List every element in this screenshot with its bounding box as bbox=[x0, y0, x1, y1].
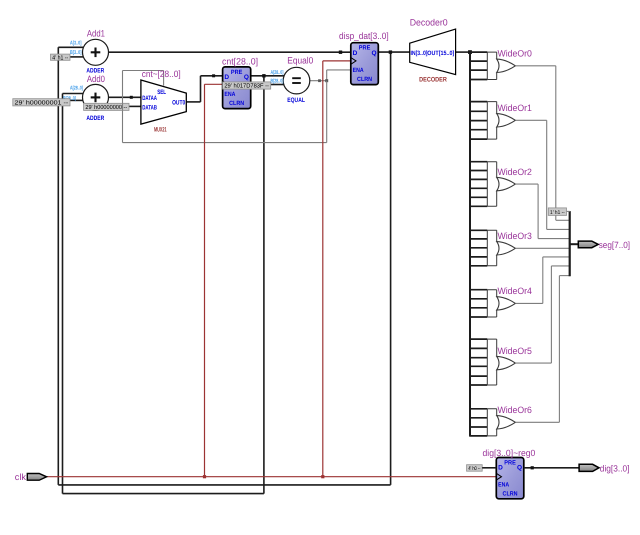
svg-text:29' h00000000 --: 29' h00000000 -- bbox=[85, 104, 127, 111]
or-gate WideOr3 body bbox=[497, 242, 516, 255]
or-gate WideOr5 body bbox=[497, 356, 516, 369]
svg-text:B[28..0]: B[28..0] bbox=[271, 79, 284, 85]
svg-text:dig[3..0]: dig[3..0] bbox=[600, 464, 630, 474]
wire seg output bbox=[570, 243, 579, 245]
or-gate WideOr2 input bar bbox=[487, 162, 496, 207]
svg-text:OUT0: OUT0 bbox=[172, 100, 185, 107]
or-gate WideOr0 input bar bbox=[487, 52, 496, 79]
wire disp_dat Q to Decoder0 input bbox=[378, 51, 409, 53]
or-gate WideOr5 input stubs bbox=[469, 339, 487, 385]
svg-text:WideOr5: WideOr5 bbox=[498, 346, 532, 356]
svg-text:A[28..0]: A[28..0] bbox=[70, 86, 83, 92]
constant 1'h1 for seg bbox=[548, 208, 566, 216]
svg-text:WideOr0: WideOr0 bbox=[498, 49, 532, 59]
svg-text:cnt[28..0]: cnt[28..0] bbox=[222, 57, 258, 67]
wire Add1 B input from constant bbox=[70, 56, 85, 58]
svg-text:B[3..0]: B[3..0] bbox=[70, 50, 82, 56]
wire WideOr5 output bbox=[515, 362, 551, 364]
svg-text:WideOr6: WideOr6 bbox=[498, 405, 532, 415]
wire WideOr1 output bbox=[515, 119, 546, 121]
svg-text:4' h1 --: 4' h1 -- bbox=[52, 54, 68, 61]
wire MUX DATAB input from constant bbox=[129, 105, 141, 107]
svg-text:ADDER: ADDER bbox=[86, 115, 104, 122]
or-gate WideOr0 input stubs bbox=[469, 52, 487, 79]
wire Add0 output to MUX DATAA bbox=[109, 96, 141, 98]
bus vertical from decoder outputs bbox=[469, 52, 471, 436]
clk branch to cnt register clock bbox=[204, 84, 206, 476]
svg-text:disp_dat[3..0]: disp_dat[3..0] bbox=[339, 31, 389, 41]
svg-text:CLRN: CLRN bbox=[229, 100, 244, 107]
or-gate WideOr3 input stubs bbox=[469, 230, 487, 265]
svg-text:Add0: Add0 bbox=[87, 74, 105, 84]
svg-text:ENA: ENA bbox=[224, 91, 236, 98]
or-gate WideOr6 input bar bbox=[487, 409, 496, 436]
or-gate WideOr0 body bbox=[497, 59, 516, 72]
svg-text:A[28..0]: A[28..0] bbox=[271, 70, 284, 76]
seg bus collector bar bbox=[569, 211, 571, 276]
junction on Add1 output wire bbox=[339, 51, 342, 54]
register cnt[28..0] bbox=[223, 67, 251, 109]
svg-text:DECODER: DECODER bbox=[419, 77, 447, 84]
wire disp_dat feedback Q to Add1 A (left tall loop) bbox=[57, 47, 59, 485]
svg-text:WideOr3: WideOr3 bbox=[498, 231, 532, 241]
decoder Decoder0 bbox=[410, 29, 456, 75]
wire WideOr0 output bbox=[515, 65, 555, 67]
register disp_dat[3..0] bbox=[351, 43, 379, 85]
svg-text:29' h00000001 --: 29' h00000001 -- bbox=[15, 99, 69, 106]
wire WideOr6 output bbox=[515, 421, 559, 423]
svg-text:Q: Q bbox=[371, 50, 376, 57]
svg-text:CLRN: CLRN bbox=[357, 76, 372, 83]
output pin seg[7..0] bbox=[578, 241, 598, 248]
clk branch to disp_dat register clock bbox=[322, 61, 324, 477]
or-gate WideOr1 body bbox=[497, 114, 516, 127]
svg-text:PRE: PRE bbox=[231, 69, 243, 76]
wire Equal0 B input from constant bbox=[271, 84, 285, 86]
svg-text:DATAB: DATAB bbox=[142, 104, 157, 111]
output pin dig[3..0] bbox=[579, 464, 599, 471]
wire Add0 B input from constant bbox=[70, 99, 85, 101]
wire segment gray vertical over constant bbox=[122, 103, 124, 110]
svg-text:1' h1 --: 1' h1 -- bbox=[550, 210, 565, 216]
svg-text:OUT[15..0]: OUT[15..0] bbox=[427, 50, 454, 57]
wire dig D input bbox=[482, 467, 496, 469]
input pin clk bbox=[27, 474, 46, 481]
or-gate WideOr1 input bar bbox=[487, 102, 496, 140]
svg-text:Decoder0: Decoder0 bbox=[410, 18, 448, 28]
svg-text:ENA: ENA bbox=[498, 481, 510, 488]
svg-text:PRE: PRE bbox=[359, 45, 371, 52]
svg-text:seg[7..0]: seg[7..0] bbox=[599, 240, 630, 250]
adder Add1 bbox=[83, 39, 109, 65]
wire WideOr3 output bbox=[515, 247, 569, 249]
svg-text:Equal0: Equal0 bbox=[287, 56, 313, 66]
wire Add1 output to disp_dat D bbox=[109, 51, 351, 53]
register dig[3..0]~reg0 bbox=[496, 458, 524, 499]
constant 29'h00000001 for Add0 B bbox=[13, 99, 70, 106]
or-gate WideOr6 body bbox=[497, 416, 516, 429]
svg-text:PRE: PRE bbox=[504, 460, 516, 467]
wire MUX OUT0 to cnt D bbox=[186, 101, 200, 103]
adder Add0 bbox=[83, 84, 109, 110]
or-gate WideOr3 input bar bbox=[487, 230, 496, 265]
svg-text:SEL: SEL bbox=[157, 89, 166, 96]
constant 4'h1 for Add1 B bbox=[51, 54, 71, 60]
wire cnt feedback Q to Add0 A (left tall loop) bbox=[62, 94, 64, 494]
wire cnt Q to Equal0 A bbox=[251, 75, 285, 77]
svg-text:cnt~[28..0]: cnt~[28..0] bbox=[142, 69, 181, 79]
svg-text:Q: Q bbox=[244, 74, 249, 81]
wire Equal0 output bbox=[310, 80, 327, 82]
or-gate WideOr1 input stubs bbox=[469, 102, 487, 140]
wire dig Q output bbox=[524, 467, 579, 469]
or-gate WideOr5 input bar bbox=[487, 339, 496, 385]
svg-text:D: D bbox=[224, 74, 229, 81]
multiplexer MUX21 cnt~[28..0] bbox=[141, 80, 186, 124]
constant 29'h017D783F for Equal0 B bbox=[223, 82, 271, 89]
svg-text:IN[3..0]: IN[3..0] bbox=[411, 50, 428, 57]
wire Decoder0 output to bus bbox=[456, 51, 470, 53]
wire Equal0 out to disp_dat ENA bbox=[326, 70, 328, 81]
svg-text:A[3..0]: A[3..0] bbox=[70, 41, 82, 47]
svg-text:D: D bbox=[353, 50, 358, 57]
svg-text:CLRN: CLRN bbox=[503, 490, 518, 497]
or-gate WideOr6 input stubs bbox=[469, 409, 487, 436]
svg-text:4' h0 --: 4' h0 -- bbox=[468, 466, 480, 472]
wire Add0 A input bbox=[63, 93, 85, 95]
svg-text:clk: clk bbox=[15, 472, 27, 482]
comparator Equal0 bbox=[283, 67, 310, 94]
svg-text:Add1: Add1 bbox=[87, 29, 105, 39]
or-gate WideOr4 input stubs bbox=[469, 290, 487, 317]
svg-text:dig[3..0]~reg0: dig[3..0]~reg0 bbox=[483, 448, 536, 458]
svg-text:WideOr2: WideOr2 bbox=[498, 167, 532, 177]
junction cnt Q feedback bbox=[262, 74, 265, 77]
svg-text:DATAA: DATAA bbox=[142, 95, 157, 102]
svg-text:WideOr4: WideOr4 bbox=[498, 286, 532, 296]
or-gate WideOr4 input bar bbox=[487, 290, 496, 317]
wire WideOr2 output bbox=[515, 183, 538, 185]
svg-text:ENA: ENA bbox=[353, 67, 365, 74]
wire WideOr4 output bbox=[515, 302, 542, 304]
or-gate WideOr2 body bbox=[497, 177, 516, 190]
junction decoder output at bus bbox=[468, 50, 472, 54]
junction Equal0 output bbox=[325, 79, 328, 82]
svg-text:WideOr1: WideOr1 bbox=[498, 103, 532, 113]
junction disp_dat Q feedback bbox=[389, 50, 392, 53]
svg-text:Q: Q bbox=[517, 465, 522, 472]
wire 1'h1 constant to collector bbox=[567, 210, 570, 212]
or-gate WideOr2 input stubs bbox=[469, 162, 487, 207]
clk net red horizontal bbox=[47, 476, 497, 478]
wire Add1 A input bbox=[58, 46, 84, 48]
svg-text:MUX21: MUX21 bbox=[154, 127, 167, 134]
constant 4'h0 for dig D bbox=[467, 465, 483, 472]
constant 29'h00000000 for MUX DATAB bbox=[84, 103, 129, 110]
svg-text:EQUAL: EQUAL bbox=[287, 97, 305, 104]
wire Equal0 out loop to MUX SEL bbox=[326, 81, 328, 143]
svg-text:D: D bbox=[498, 465, 503, 472]
or-gate WideOr4 body bbox=[497, 297, 516, 310]
svg-text:29' h017D783F --: 29' h017D783F -- bbox=[224, 83, 269, 90]
